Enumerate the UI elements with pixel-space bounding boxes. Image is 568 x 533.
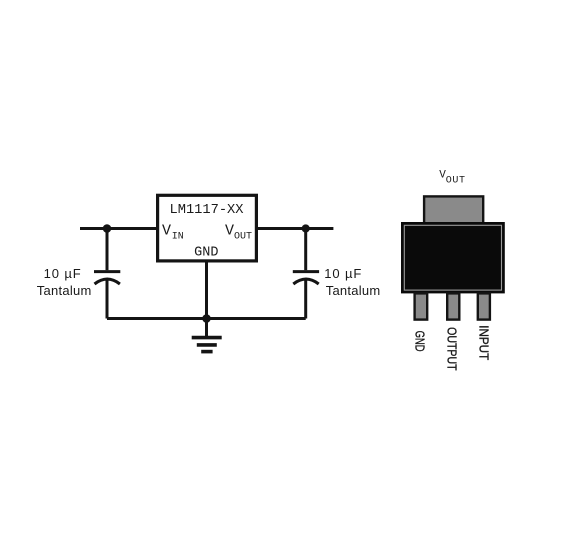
svg-text:INPUT: INPUT — [476, 325, 491, 360]
svg-text:OUTPUT: OUTPUT — [445, 327, 460, 371]
svg-text:10 µF: 10 µF — [324, 266, 362, 281]
svg-text:V: V — [225, 223, 234, 240]
svg-text:GND: GND — [194, 246, 218, 261]
svg-text:OUT: OUT — [234, 231, 252, 242]
svg-text:IN: IN — [172, 231, 184, 242]
svg-text:LM1117-XX: LM1117-XX — [170, 203, 244, 218]
svg-text:GND: GND — [413, 331, 428, 352]
svg-text:Tantalum: Tantalum — [37, 283, 92, 298]
svg-text:Tantalum: Tantalum — [326, 283, 381, 298]
svg-text:10 µF: 10 µF — [44, 266, 82, 281]
svg-text:V: V — [162, 223, 171, 240]
svg-text:OUT: OUT — [446, 175, 466, 186]
